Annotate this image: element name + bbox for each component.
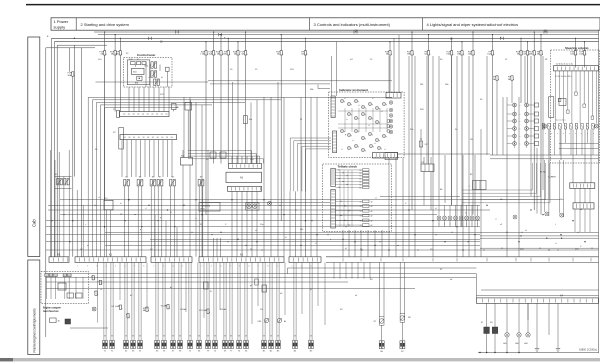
wire instrument feed 4: [393, 38, 395, 92]
svg-text:d2: d2: [371, 211, 373, 213]
wire: [444, 205, 446, 216]
connector B2: [269, 341, 271, 349]
bottom scan bar: [0, 358, 600, 361]
diode column: [387, 120, 390, 123]
ground G1: [535, 348, 539, 350]
wire F27 feed: [584, 42, 586, 51]
lamp row mid: [437, 216, 441, 220]
wire instrument feed 3: [388, 56, 390, 93]
wire: [449, 220, 451, 227]
wire: [213, 238, 215, 257]
steering h-line 3: [559, 142, 599, 144]
connector X3: [131, 341, 133, 349]
control lever main box S10: [132, 68, 144, 74]
wire: [530, 56, 532, 196]
wire pair to B2: [269, 262, 271, 340]
fuse F13: [471, 51, 475, 55]
wire corner: [188, 150, 252, 152]
rail tick: [456, 258, 458, 262]
wire: [402, 158, 404, 257]
connector bar X2: [120, 135, 177, 140]
svg-text:4: 4: [182, 265, 183, 267]
junction: [354, 241, 355, 242]
lamp right G3: [513, 215, 517, 219]
wire F25 drop: [520, 55, 522, 103]
wire: [96, 102, 98, 256]
wire: [154, 186, 156, 257]
wire pair to Y9: [206, 262, 208, 340]
wire pair to B1: [262, 262, 264, 340]
wire control lever drop: [163, 87, 165, 112]
junction: [388, 249, 389, 250]
wire: [295, 191, 297, 256]
steering lamp row: [543, 124, 547, 128]
instrument pin bar lower: [333, 131, 337, 153]
wire: [494, 303, 496, 327]
fuse F9: [118, 51, 122, 55]
svg-text:x1: x1: [341, 149, 343, 151]
wire pair to T2: [213, 262, 215, 340]
switch S5b mid: [277, 318, 281, 322]
wire: [548, 303, 550, 335]
indicator instrument box: [329, 92, 405, 158]
header band: [51, 18, 600, 30]
svg-text:x1: x1: [352, 140, 354, 142]
wire control lever drop: [148, 87, 150, 112]
connector Y4: [138, 341, 140, 349]
junction bus A: [74, 38, 75, 39]
wire: [157, 186, 159, 257]
wire: [165, 221, 167, 257]
wire: [536, 148, 538, 214]
steering unit box: [559, 98, 566, 105]
junction: [231, 199, 232, 200]
inline component C47: [419, 141, 422, 147]
wire corner: [297, 143, 331, 145]
wire corner: [188, 158, 263, 160]
svg-text:e: e: [466, 224, 467, 226]
fuse F2 mid: [510, 76, 514, 80]
junction: [148, 205, 149, 206]
svg-text:d2: d2: [371, 206, 373, 208]
wire: [251, 262, 253, 324]
svg-text:x1: x1: [358, 105, 360, 107]
wire F15 drop: [114, 55, 116, 112]
harness line: [480, 247, 599, 249]
junction: [195, 199, 196, 200]
h-line y99.8: [93, 99, 282, 101]
wire: [471, 205, 473, 216]
wire: [430, 157, 432, 164]
wire: [127, 186, 129, 257]
wire F20 drop: [527, 55, 529, 103]
lower h-line 4: [46, 288, 415, 290]
wire A5 drop: [241, 191, 243, 256]
lower h-line 2: [46, 276, 476, 278]
wire A5 feed: [241, 156, 243, 164]
wire: [106, 210, 108, 257]
harness line: [60, 199, 560, 201]
wire pair to X8: [197, 262, 199, 340]
svg-text:b1: b1: [360, 184, 362, 186]
fuse F20: [526, 51, 530, 55]
wire pair S7: [379, 262, 381, 316]
h-line y83.9: [210, 83, 330, 85]
junction: [183, 205, 184, 206]
svg-text:K3 1-6A: K3 1-6A: [112, 305, 120, 308]
wire instrument feed 2: [336, 42, 338, 96]
svg-text:g: g: [379, 140, 380, 142]
right junctions: [506, 232, 507, 233]
svg-text:3: 3: [220, 265, 221, 267]
wire: [141, 186, 143, 257]
connector box X12: [385, 153, 398, 160]
terminal: [591, 116, 594, 119]
fuse F6: [427, 51, 431, 55]
svg-text:d4: d4: [525, 230, 527, 232]
wire: [477, 205, 479, 216]
wire: [82, 205, 84, 256]
wire: [438, 220, 440, 227]
wire control lever drop: [168, 87, 170, 112]
wire pair to X6: [244, 262, 246, 340]
telltale pin bar 1: [331, 169, 336, 187]
svg-text:e: e: [461, 224, 462, 226]
wire: [201, 105, 203, 257]
telltale pin bar 2: [331, 190, 336, 229]
wire steering drop: [555, 71, 557, 124]
wire: [542, 56, 544, 190]
switch S5: [137, 180, 139, 186]
fuse K3 1-6A: [119, 305, 123, 309]
wire F6 drop: [428, 55, 430, 164]
wire: [263, 97, 265, 256]
lamp H3: [268, 202, 272, 206]
wire: [560, 130, 562, 161]
wire lamp stub: [507, 120, 513, 122]
rail tick: [342, 258, 344, 262]
svg-text:M1: M1: [490, 322, 493, 324]
fuse F3 mid: [495, 76, 499, 80]
lamp E2: [517, 333, 521, 337]
wire: [173, 186, 175, 257]
connector Y7: [229, 341, 231, 349]
wire: [216, 238, 218, 257]
switch S3 pair: [57, 179, 59, 185]
header divider 1-2: [75, 18, 77, 30]
wire: [502, 97, 504, 155]
fuse F5: [304, 51, 308, 55]
connector S8 foot: [400, 341, 402, 349]
svg-text:1: 1: [78, 265, 79, 267]
svg-text:2: 2: [87, 265, 88, 267]
fuse F15: [113, 51, 117, 55]
junction: [560, 234, 561, 235]
wire: [182, 165, 184, 257]
wire: [423, 172, 425, 206]
wire pair S8: [399, 262, 401, 313]
harness line: [200, 201, 330, 203]
wire X2 drop: [162, 140, 164, 177]
wire: [536, 303, 538, 348]
switch S7: [157, 180, 159, 186]
diagram right border: [598, 30, 600, 353]
h-line y102.4: [97, 101, 246, 103]
wire F21 long drop: [104, 55, 106, 200]
junction: [432, 220, 433, 221]
svg-text:G05: G05: [503, 343, 507, 345]
junction: [518, 352, 519, 353]
wire F10 feed: [220, 35, 222, 51]
engine chain lamp: [92, 307, 96, 311]
svg-text:b1: b1: [465, 213, 467, 215]
svg-text:58c: 58c: [300, 229, 303, 231]
wire: [460, 205, 462, 216]
harness line: [105, 231, 599, 233]
wire: [471, 220, 473, 227]
wire: [104, 107, 106, 256]
switch box column: [535, 103, 539, 107]
svg-text:Steering column: Steering column: [565, 46, 589, 50]
wire steering drop: [596, 71, 598, 124]
h-line right triple: [480, 235, 599, 237]
wire: [68, 150, 70, 257]
wire F13 feed: [472, 32, 474, 51]
harness line: [48, 209, 490, 211]
wire: [189, 165, 191, 257]
wire: [511, 80, 513, 103]
svg-text:5a 5b 4a 3a 2a 1a 6a: 5a 5b 4a 3a 2a 1a 6a: [556, 64, 573, 66]
instrument lamp column: [389, 101, 393, 105]
wire X2 drop: [144, 140, 146, 177]
wire: [183, 97, 185, 157]
h-line y97: [88, 96, 392, 98]
svg-text:5: 5: [115, 265, 116, 267]
junction: [374, 245, 375, 246]
fuse F18: [388, 51, 392, 55]
svg-text:g: g: [365, 138, 366, 140]
fuse K3 6A: [145, 307, 149, 311]
wire: [374, 230, 376, 257]
fuse F23: [236, 51, 240, 55]
wire: [357, 262, 359, 278]
wire: [81, 48, 83, 257]
wire X2 drop: [158, 140, 160, 177]
wire pair to Y8: [178, 262, 180, 340]
wire instrument feed 1: [331, 56, 333, 96]
svg-text:Indicator instrument: Indicator instrument: [339, 88, 368, 92]
wire: [360, 230, 362, 257]
fuse F21: [103, 51, 107, 55]
wire F27 drop: [584, 55, 586, 68]
wire A5 feed: [236, 156, 238, 164]
instrument top connector: [386, 93, 401, 99]
svg-text:2: 2: [211, 265, 212, 267]
engine box fuses: [45, 274, 49, 277]
svg-text:x1: x1: [374, 143, 376, 145]
wire: [50, 150, 52, 257]
svg-text:G06: G06: [515, 343, 519, 345]
wire lamp stub down 2: [518, 337, 520, 353]
svg-text:1: 1: [202, 265, 203, 267]
junction: [167, 209, 168, 210]
wire corner: [306, 148, 332, 150]
svg-text:2 Starting and drive system: 2 Starting and drive system: [81, 22, 130, 27]
steering column box: [551, 50, 600, 163]
svg-text:b1: b1: [360, 179, 362, 181]
h-line y82: [96, 81, 209, 83]
wire: [257, 262, 259, 306]
junction: [572, 220, 573, 221]
svg-text:e: e: [455, 224, 456, 226]
telltale check box: [323, 164, 392, 231]
steering connector bar: [554, 66, 599, 71]
svg-text:3: 3: [172, 265, 173, 267]
relay box X1-right a: [172, 104, 177, 110]
connector B1: [262, 341, 264, 349]
wire F21 feed: [104, 32, 106, 51]
rail tick: [548, 258, 550, 262]
header divider 3-4: [422, 18, 424, 30]
steering switch drops: [548, 129, 550, 155]
svg-text:c1: c1: [360, 216, 362, 218]
connector T2: [213, 341, 215, 349]
junction: [305, 220, 306, 221]
control lever bottom box: [137, 76, 142, 80]
fuse lower b: [126, 314, 130, 318]
rail tick: [530, 258, 532, 262]
lamp right G4: [545, 212, 549, 216]
wire control lever drop: [138, 87, 140, 112]
svg-text:C47: C47: [425, 144, 428, 146]
svg-text:a: a: [557, 133, 558, 135]
wire F16 drop: [213, 55, 215, 164]
svg-text:6: 6: [249, 265, 250, 267]
svg-text:1: 1: [292, 265, 293, 267]
junction: [584, 241, 585, 242]
wire: [232, 82, 234, 164]
wire F22 drop: [205, 55, 207, 215]
harness line: [46, 234, 480, 236]
steering h-line 4: [559, 147, 599, 149]
header divider 2-3: [309, 18, 311, 30]
wire: [333, 262, 335, 278]
junction: [104, 226, 105, 227]
wire pair to T1: [188, 262, 190, 340]
wire: [388, 158, 390, 257]
wire: [58, 152, 60, 257]
mid band speckle dots: [94, 205, 95, 206]
bulkhead connector right rail: [326, 256, 599, 258]
wire lamp stub: [507, 135, 513, 137]
lower-right box 1: [484, 327, 490, 334]
rail tick: [572, 258, 574, 262]
wire: [289, 191, 291, 256]
svg-text:1: 1: [154, 265, 155, 267]
wire: [146, 262, 148, 309]
wire: [150, 186, 152, 257]
svg-text:a: a: [587, 133, 588, 135]
bulkhead connector K1: [49, 257, 69, 263]
wire jog 287: [287, 268, 289, 274]
wire: [449, 205, 451, 216]
instrument pin bar upper: [331, 96, 335, 118]
wire steering drop: [567, 71, 569, 110]
svg-text:K3-6A: K3-6A: [220, 308, 226, 311]
lamp column A: [513, 103, 517, 107]
fuse F17: [244, 51, 248, 55]
wire: [557, 303, 559, 348]
wire: [430, 172, 432, 211]
wire F23 drop: [237, 55, 239, 164]
junction: [316, 234, 317, 235]
switch S9: [198, 180, 200, 186]
wire: [161, 186, 163, 257]
control lever box: [124, 58, 173, 88]
svg-text:g: g: [372, 104, 373, 106]
wire F7 drop: [492, 55, 494, 155]
wire X2 drop: [131, 140, 133, 177]
control lever unit A1: [131, 62, 136, 65]
wire: [189, 97, 191, 157]
fuse F10: [219, 51, 223, 55]
wire F17 drop: [245, 55, 247, 164]
wire F5 drop: [304, 55, 306, 257]
wire X2 drop: [153, 140, 155, 177]
svg-text:e: e: [450, 224, 451, 226]
svg-text:supply: supply: [54, 24, 66, 29]
wire lamp stub: [507, 104, 513, 106]
connector X8: [197, 341, 199, 349]
h-line y154 left: [397, 153, 490, 155]
relay K12: [104, 200, 113, 210]
lower-right h-line F: [476, 294, 598, 296]
connector X1 end cap: [117, 110, 120, 117]
wire: [284, 262, 286, 315]
wire pair to X5: [155, 262, 157, 340]
svg-text:e1: e1: [555, 243, 557, 245]
wire control lever drop: [143, 87, 145, 112]
bulkhead connector K2: [75, 257, 146, 263]
sidebar Frame box: [28, 260, 40, 355]
wire: [506, 97, 508, 257]
rail tick: [515, 258, 517, 262]
wire F23 feed: [237, 42, 239, 51]
frame connector K4 bar: [476, 298, 598, 303]
junction: [414, 234, 415, 235]
wire F10 drop: [220, 55, 222, 164]
svg-text:c2: c2: [315, 243, 317, 245]
connector X5: [155, 341, 157, 349]
wire: [548, 130, 550, 200]
wire X2 drop: [126, 140, 128, 177]
svg-text:b1: b1: [360, 173, 362, 175]
svg-text:X3-6A: X3-6A: [180, 308, 186, 311]
wire bus drop 51.5: [51, 38, 53, 256]
wire A5 drop: [231, 191, 233, 256]
fuse F16: [212, 51, 216, 55]
wire: [367, 230, 369, 257]
junction: [518, 241, 519, 242]
wire: [496, 80, 498, 155]
fuse F11: [279, 51, 283, 55]
wire: [438, 205, 440, 216]
wire corner: [294, 140, 331, 142]
svg-text:a3: a3: [435, 208, 437, 210]
wire steering drop: [587, 71, 589, 124]
junction: [124, 220, 125, 221]
wire: [584, 130, 586, 183]
